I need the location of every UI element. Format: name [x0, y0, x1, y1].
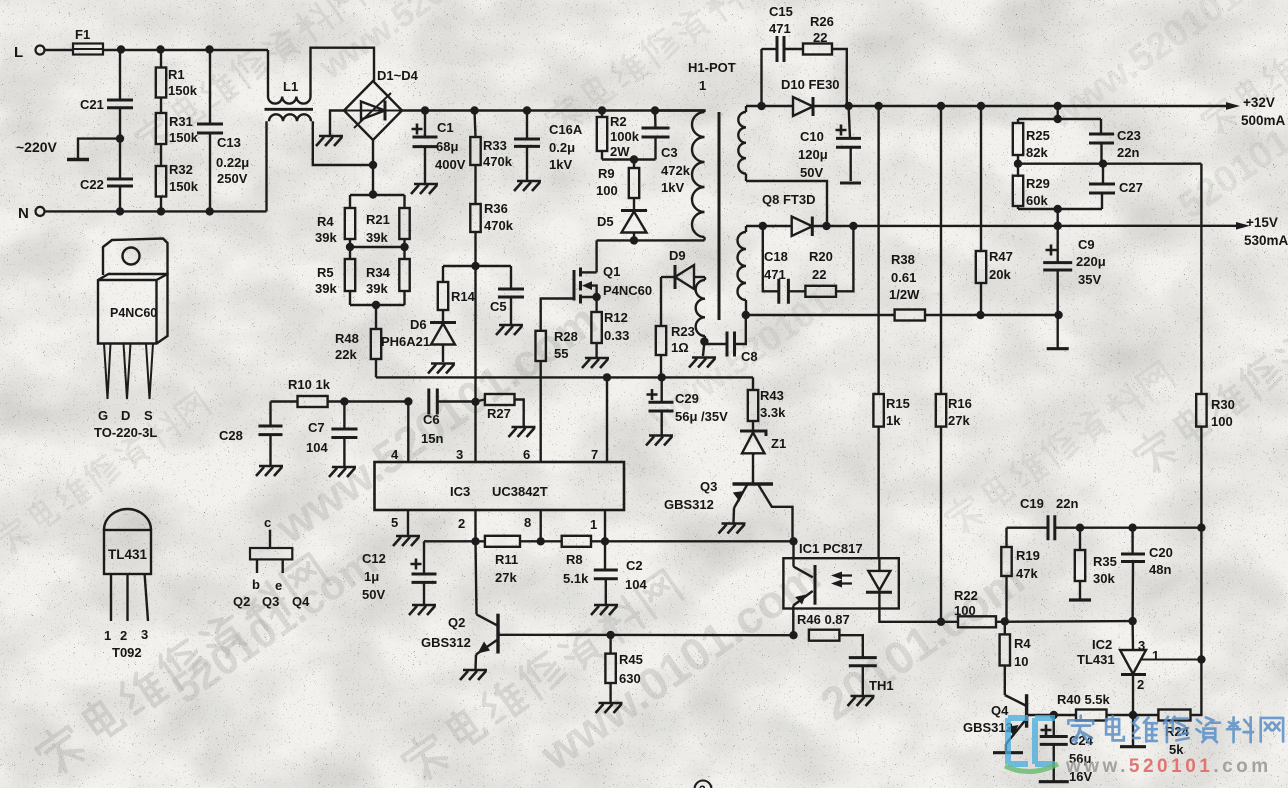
svg-text:471: 471 — [764, 267, 786, 282]
wire feedback line — [424, 537, 485, 545]
wire L terminal to fuse — [45, 49, 74, 51]
resistor R24 5k — [1133, 660, 1201, 758]
resistor R35 30k — [1075, 528, 1117, 599]
svg-text:R48: R48 — [335, 331, 359, 346]
circled page number 2 — [695, 781, 712, 788]
resistor R16 27k — [936, 106, 972, 622]
wire Q1 gate — [541, 299, 574, 331]
svg-text:4: 4 — [391, 447, 399, 462]
svg-text:6: 6 — [523, 447, 530, 462]
svg-text:35V: 35V — [1078, 272, 1101, 287]
svg-text:104: 104 — [625, 577, 647, 592]
wire to 39k divider — [350, 194, 405, 196]
ground at C5 — [496, 325, 523, 335]
capacitor C12 1u 50V — [362, 541, 437, 604]
svg-text:0.22μ: 0.22μ — [216, 155, 249, 170]
svg-text:5: 5 — [391, 515, 398, 530]
wire Q4 base line — [1027, 711, 1076, 719]
resistor R43 3.3k — [748, 377, 786, 431]
svg-text:D6: D6 — [410, 317, 427, 332]
svg-text:150k: 150k — [169, 130, 199, 145]
svg-text:F1: F1 — [75, 27, 90, 42]
svg-text:60k: 60k — [1026, 193, 1048, 208]
wire HV positive rail — [402, 106, 705, 114]
svg-text:TL431: TL431 — [1077, 652, 1115, 667]
ground at Q2 emitter — [460, 670, 487, 680]
svg-text:C1: C1 — [437, 120, 454, 135]
svg-text:+15V: +15V — [1246, 215, 1278, 230]
svg-text:250V: 250V — [217, 171, 248, 186]
node feedback winding return — [700, 337, 708, 356]
svg-text:D10 FE30: D10 FE30 — [781, 77, 840, 92]
resistor R34 39k — [366, 247, 410, 296]
svg-text:Q2: Q2 — [233, 594, 250, 609]
wire R36 to IC3 pin 3 — [474, 266, 476, 402]
ground bar at TL431 — [1120, 745, 1146, 748]
capacitor C21 — [80, 50, 133, 139]
svg-text:50V: 50V — [800, 165, 823, 180]
svg-text:C12: C12 — [362, 551, 386, 566]
svg-text:150k: 150k — [169, 179, 199, 194]
svg-text:C27: C27 — [1119, 180, 1143, 195]
resistor R4 39k — [315, 195, 355, 245]
svg-text:D5: D5 — [597, 214, 614, 229]
svg-text:C23: C23 — [1117, 128, 1141, 143]
svg-text:1: 1 — [1152, 648, 1159, 663]
svg-text:www.520101.com: www.520101.com — [1065, 756, 1272, 777]
svg-text:R25: R25 — [1026, 128, 1050, 143]
svg-text:470k: 470k — [483, 154, 513, 169]
capacitor C19 22n — [1020, 496, 1206, 540]
svg-text:C7: C7 — [308, 420, 325, 435]
resistor R38 0.61 1/2W inline — [889, 252, 925, 321]
svg-text:R30: R30 — [1211, 397, 1235, 412]
svg-text:R33: R33 — [483, 138, 507, 153]
Q2/Q3/Q4 pinout inset — [233, 515, 310, 609]
wire IC3 pin4 stub — [407, 402, 409, 463]
svg-text:R12: R12 — [604, 310, 628, 325]
ground at C29 — [646, 436, 673, 446]
svg-text:N: N — [18, 205, 29, 222]
wire secondary upper return — [746, 181, 827, 226]
capacitor C22 — [80, 139, 133, 212]
capacitor C5 — [490, 266, 524, 324]
resistor R1 150k — [156, 50, 198, 99]
wire IC3 pin8 stub — [540, 510, 542, 541]
wire +32V output rail — [813, 95, 1286, 128]
svg-text:2: 2 — [699, 783, 706, 788]
svg-text:630: 630 — [619, 671, 641, 686]
svg-text:1kV: 1kV — [661, 180, 684, 195]
resistor R23 1&#937; — [656, 277, 695, 377]
svg-text:S: S — [144, 408, 153, 423]
svg-text:8: 8 — [524, 515, 531, 530]
svg-text:R45: R45 — [619, 652, 643, 667]
svg-text:C3: C3 — [661, 145, 678, 160]
wire +15V output rail — [812, 215, 1288, 248]
wire IC3 pin2 stub — [474, 510, 476, 541]
svg-text:1kV: 1kV — [549, 157, 572, 172]
resistor R36 470k — [470, 165, 513, 266]
svg-text:C20: C20 — [1149, 545, 1173, 560]
svg-text:TL431: TL431 — [108, 547, 148, 562]
svg-text:R19: R19 — [1016, 548, 1040, 563]
wire secondary ground return line — [742, 311, 1063, 319]
resistor R33 470k — [470, 111, 512, 170]
svg-text:R2: R2 — [610, 114, 627, 129]
svg-text:C9: C9 — [1078, 237, 1095, 252]
svg-text:IC1 PC817: IC1 PC817 — [799, 541, 863, 556]
watermark site name — [1065, 716, 1283, 777]
ground at C2 — [591, 605, 618, 615]
capacitor C7 104 — [306, 402, 357, 467]
ground at C28 — [256, 466, 283, 476]
svg-text:Z1: Z1 — [771, 436, 786, 451]
zener diode Z1 — [740, 431, 786, 484]
svg-text:R35: R35 — [1093, 554, 1117, 569]
capacitor C8 — [704, 315, 757, 364]
svg-text:D9: D9 — [669, 248, 686, 263]
diode D8 FE3D — [762, 192, 815, 236]
svg-text:C8: C8 — [741, 349, 758, 364]
ground at C1 — [411, 184, 438, 194]
resistor R19 47k — [1001, 528, 1040, 622]
svg-text:82k: 82k — [1026, 145, 1048, 160]
resistor R31 150k — [156, 98, 199, 146]
resistor R26 22 snubber — [784, 14, 847, 106]
ground at C12 — [409, 605, 436, 615]
wire +15V node line — [746, 222, 792, 230]
terminal L (AC live input) — [14, 44, 45, 61]
capacitor C16A 0.2u 1kV — [514, 111, 583, 181]
svg-text:27k: 27k — [495, 570, 517, 585]
transformer core — [718, 112, 721, 320]
svg-text:D: D — [121, 408, 130, 423]
svg-text:Q1: Q1 — [603, 264, 620, 279]
svg-text:R20: R20 — [809, 249, 833, 264]
capacitor C20 48n — [1121, 528, 1173, 621]
wire IC3 pin7 supply — [606, 377, 608, 462]
thermistor TH1 — [849, 658, 894, 695]
svg-text:39k: 39k — [366, 281, 388, 296]
capacitor C13 0.22u 250V — [197, 50, 249, 212]
svg-text:C18: C18 — [764, 249, 788, 264]
transistor Q3 GBS312 — [664, 479, 793, 541]
wire VCC rail — [376, 373, 753, 381]
svg-text:R27: R27 — [487, 406, 511, 421]
wire bridge negative output — [369, 140, 377, 199]
resistor R5 39k — [315, 247, 355, 296]
svg-text:R40 5.5k: R40 5.5k — [1057, 692, 1111, 707]
ground at D6 — [428, 364, 455, 374]
svg-text:C16A: C16A — [549, 122, 583, 137]
svg-text:1/2W: 1/2W — [889, 287, 920, 302]
svg-text:20k: 20k — [989, 267, 1011, 282]
transistor Q4 GBS312 — [963, 694, 1027, 753]
capacitor C10 120u 50V — [798, 106, 861, 183]
optocoupler IC1 PC817 — [783, 541, 941, 635]
svg-text:C5: C5 — [490, 299, 507, 314]
svg-text:R28: R28 — [554, 329, 578, 344]
svg-text:2: 2 — [1137, 677, 1144, 692]
svg-text:C2: C2 — [626, 558, 643, 573]
wire IC3 pin3 stub — [474, 402, 476, 462]
svg-text:H1-POT: H1-POT — [688, 60, 736, 75]
transformer secondary winding upper — [738, 106, 746, 181]
resistor R47 20k — [976, 106, 1013, 315]
svg-text:47k: 47k — [1016, 566, 1038, 581]
ground at R45 — [596, 703, 623, 713]
TL431 package drawing (TO92) — [104, 509, 151, 660]
svg-text:R10 1k: R10 1k — [288, 377, 331, 392]
svg-text:48n: 48n — [1149, 562, 1171, 577]
svg-text:100k: 100k — [610, 129, 640, 144]
svg-text:R21: R21 — [366, 212, 390, 227]
wire R28 to IC3 pin 6 — [540, 361, 542, 462]
capacitor C24 56u 16V — [1040, 715, 1094, 784]
svg-text:IC2: IC2 — [1092, 637, 1112, 652]
node D5/Q1 drain/primary — [597, 236, 705, 244]
wire IC3 pin1 stub — [604, 510, 606, 541]
svg-text:R29: R29 — [1026, 176, 1050, 191]
svg-text:R31: R31 — [169, 114, 193, 129]
bridge rectifier D1~D4 — [344, 68, 419, 140]
svg-text:39k: 39k — [315, 230, 337, 245]
svg-text:R47: R47 — [989, 249, 1013, 264]
svg-text:1: 1 — [590, 517, 597, 532]
resistor R4 10 (secondary) — [1000, 621, 1032, 695]
svg-text:39k: 39k — [366, 230, 388, 245]
svg-text:0.33: 0.33 — [604, 328, 629, 343]
svg-text:D1~D4: D1~D4 — [377, 68, 419, 83]
svg-text:R16: R16 — [948, 396, 972, 411]
transformer secondary winding lower — [738, 226, 747, 315]
svg-text:5k: 5k — [1169, 742, 1184, 757]
svg-text:530mA: 530mA — [1244, 233, 1288, 248]
svg-text:b: b — [252, 577, 260, 592]
resistor R48 22k — [335, 305, 381, 377]
diode D9 — [661, 248, 705, 289]
svg-text:IC3: IC3 — [450, 484, 470, 499]
ground at IC3 pin5 — [393, 536, 420, 546]
resistor R28 55 gate — [536, 329, 578, 361]
wire IC3 pin5 to ground — [407, 510, 409, 535]
capacitor C28 — [219, 402, 283, 466]
svg-text:22n: 22n — [1056, 496, 1078, 511]
resistor R45 630 — [605, 635, 642, 702]
svg-text:3: 3 — [141, 627, 148, 642]
svg-text:15n: 15n — [421, 431, 443, 446]
svg-text:Q3: Q3 — [700, 479, 717, 494]
ground at feedback winding — [689, 358, 716, 368]
svg-text:R46 0.87: R46 0.87 — [797, 612, 850, 627]
capacitor C15 471 snubber — [762, 4, 793, 106]
svg-text:220μ: 220μ — [1076, 254, 1106, 269]
wire R30 to TL431 ref — [1197, 528, 1205, 664]
resistor R10 1k — [288, 377, 412, 407]
svg-text:R4: R4 — [317, 214, 334, 229]
svg-text:2: 2 — [120, 628, 127, 643]
svg-text:R11: R11 — [495, 552, 518, 567]
fuse F1 — [73, 27, 103, 55]
svg-text:C13: C13 — [217, 135, 241, 150]
wire R2/C3 snubber node — [602, 155, 656, 163]
svg-text:C21: C21 — [80, 97, 104, 112]
svg-text:27k: 27k — [948, 413, 970, 428]
resistor R8 5.1k — [562, 536, 798, 586]
svg-text:L1: L1 — [283, 79, 298, 94]
svg-text:100: 100 — [596, 183, 618, 198]
svg-text:3.3k: 3.3k — [760, 405, 786, 420]
svg-text:C15: C15 — [769, 4, 793, 19]
svg-text:TO-220-3L: TO-220-3L — [94, 425, 157, 440]
svg-text:22n: 22n — [1117, 145, 1139, 160]
svg-text:1μ: 1μ — [364, 569, 379, 584]
svg-text:C19: C19 — [1020, 496, 1044, 511]
svg-text:22: 22 — [812, 267, 826, 282]
capacitor C29 56u/35V — [647, 377, 729, 434]
svg-text:Q4: Q4 — [991, 703, 1009, 718]
svg-text:e: e — [275, 578, 282, 593]
svg-text:39k: 39k — [315, 281, 337, 296]
ground at R27 — [509, 427, 536, 437]
svg-text:P4NC60: P4NC60 — [110, 306, 157, 320]
capacitor C1 68u 400V — [412, 111, 466, 184]
ground at R12 — [582, 358, 609, 368]
svg-text:471: 471 — [769, 21, 791, 36]
inductor L1 common-mode choke — [265, 48, 375, 212]
wire top input rail — [103, 45, 268, 53]
svg-text:100: 100 — [1211, 414, 1233, 429]
diode D10 FE30 — [781, 77, 840, 116]
svg-text:R43: R43 — [760, 388, 784, 403]
svg-text:c: c — [264, 515, 271, 530]
wire TL431 anode to ground — [1132, 715, 1134, 747]
svg-text:2W: 2W — [610, 144, 630, 159]
ground bar at C24 — [1039, 780, 1069, 783]
svg-text:R34: R34 — [366, 265, 391, 280]
svg-text:C22: C22 — [80, 177, 104, 192]
P4NC60 package drawing (TO-220-3L) — [94, 239, 168, 441]
svg-text:P4NC60: P4NC60 — [603, 283, 652, 298]
svg-text:R24: R24 — [1165, 724, 1190, 739]
svg-text:500mA: 500mA — [1241, 113, 1286, 128]
svg-text:L: L — [14, 44, 23, 61]
ground bar at R35 — [1069, 598, 1091, 601]
svg-text:400V: 400V — [435, 157, 466, 172]
resistor R9 100 — [596, 160, 639, 199]
ground at C16A — [514, 181, 541, 191]
svg-text:+32V: +32V — [1243, 95, 1275, 110]
resistor R40 5.5k — [1057, 692, 1137, 721]
svg-text:PH6A21: PH6A21 — [381, 334, 430, 349]
resistor R29 60k — [1013, 164, 1050, 209]
svg-text:3: 3 — [456, 447, 463, 462]
transistor Q2 GBS312 — [421, 541, 498, 669]
svg-text:2: 2 — [458, 516, 465, 531]
wire R10 line — [271, 400, 298, 402]
wire Q2 base line — [498, 631, 794, 639]
svg-text:R8: R8 — [566, 552, 583, 567]
svg-text:R15: R15 — [886, 396, 910, 411]
capacitor C18 471 snubber — [763, 226, 789, 304]
svg-text:5.1k: 5.1k — [563, 571, 589, 586]
node divider bottom — [350, 291, 405, 309]
capacitor C23 22n — [1089, 119, 1141, 164]
resistor R25 82k — [1013, 119, 1050, 164]
resistor R22 100 — [941, 588, 1137, 627]
svg-text:30k: 30k — [1093, 571, 1115, 586]
svg-text:TH1: TH1 — [869, 678, 894, 693]
svg-text:1: 1 — [104, 628, 111, 643]
resistor R32 150k — [156, 144, 199, 211]
svg-text:R32: R32 — [169, 162, 193, 177]
diode D6 PH6A21 — [381, 310, 456, 362]
watermark logo — [1005, 718, 1058, 772]
svg-text:1: 1 — [699, 78, 706, 93]
svg-text:Q8 FT3D: Q8 FT3D — [762, 192, 815, 207]
resistor R14 — [438, 266, 476, 310]
svg-text:Q2: Q2 — [448, 615, 465, 630]
svg-text:55: 55 — [554, 346, 568, 361]
svg-text:68μ: 68μ — [436, 139, 458, 154]
wire divider mid node — [1014, 160, 1202, 168]
svg-text:R1: R1 — [168, 67, 185, 82]
wire C19 line — [1007, 527, 1049, 529]
resistor R27 — [476, 394, 524, 426]
svg-text:R14: R14 — [451, 289, 476, 304]
capacitor C27 — [1089, 164, 1143, 209]
svg-text:Q3: Q3 — [262, 594, 279, 609]
shunt regulator IC2 TL431 — [1077, 621, 1201, 715]
svg-text:C28: C28 — [219, 428, 243, 443]
svg-text:GBS312: GBS312 — [421, 635, 471, 650]
ground bar at Q4 emitter — [993, 751, 1023, 754]
svg-text:470k: 470k — [484, 218, 514, 233]
svg-text:Q4: Q4 — [292, 594, 310, 609]
svg-text:472k: 472k — [661, 163, 691, 178]
resistor R11 27k — [485, 536, 562, 585]
resistor R2 100k 2W — [597, 111, 640, 160]
ground at bridge AC side — [316, 111, 344, 147]
op-amp IC3 UC3842T PWM controller — [375, 447, 625, 532]
transformer feedback winding — [696, 277, 705, 342]
ground at TH1 — [848, 696, 875, 706]
svg-text:C29: C29 — [675, 391, 699, 406]
svg-text:150k: 150k — [168, 83, 198, 98]
svg-text:C10: C10 — [800, 129, 824, 144]
svg-text:10: 10 — [1014, 654, 1028, 669]
transistor Q1 P4NC60 MOSFET — [574, 240, 652, 303]
ground at Q3 emitter — [719, 524, 746, 534]
resistor R30 100 — [1196, 164, 1235, 528]
transformer H1-POT primary winding — [655, 60, 736, 240]
svg-text:56μ /35V: 56μ /35V — [675, 409, 728, 424]
svg-text:R4: R4 — [1014, 636, 1031, 651]
capacitor C2 104 — [594, 541, 648, 604]
svg-text:120μ: 120μ — [798, 147, 828, 162]
capacitor C9 220u 35V — [1043, 226, 1105, 349]
svg-text:R23: R23 — [671, 324, 695, 339]
svg-text:R36: R36 — [484, 201, 508, 216]
capacitor C6 15n — [421, 389, 480, 447]
svg-text:1Ω: 1Ω — [671, 340, 689, 355]
svg-text:R38: R38 — [891, 252, 915, 267]
ground bar at C9 — [1047, 347, 1069, 350]
svg-text:0.2μ: 0.2μ — [549, 140, 575, 155]
resistor R21 39k — [366, 195, 410, 245]
terminal N (AC neutral input) — [18, 205, 45, 222]
